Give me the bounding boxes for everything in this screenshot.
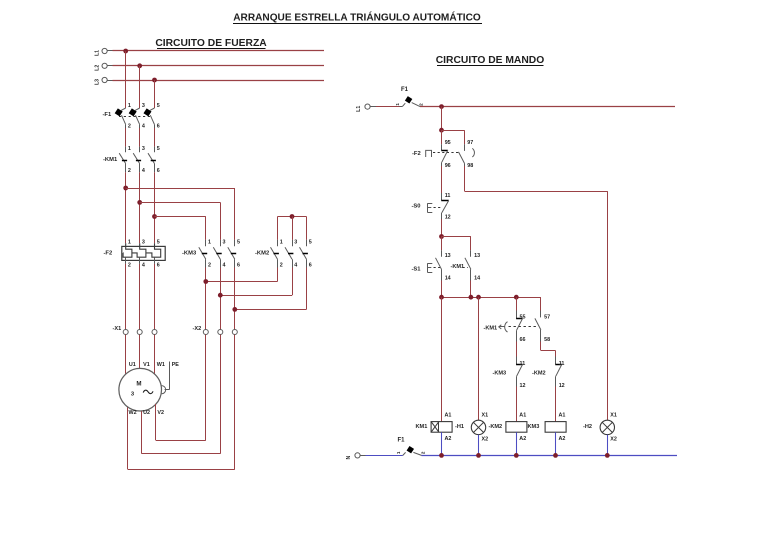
svg-text:2: 2 (128, 168, 131, 174)
thermal contact F2 NC 95-96 (441, 140, 450, 169)
motor label U1 (129, 362, 136, 368)
svg-text:12: 12 (559, 383, 565, 389)
svg-text:X2: X2 (482, 436, 489, 442)
thermal contact F2 NO 97-98 (459, 140, 474, 169)
contactor KM3 pole 2 (213, 239, 225, 268)
wire F2 NC feed (441, 130, 443, 144)
terminal X1-1 (123, 330, 128, 335)
svg-text:F1: F1 (398, 438, 406, 444)
stop button S0 NC 11-12 (441, 193, 450, 221)
svg-text:W2: W2 (129, 410, 137, 416)
motor label U2 (143, 410, 150, 416)
wire rail4 (442, 297, 541, 299)
node cross1 (203, 279, 208, 284)
node neutral KM3 (553, 453, 558, 458)
wire X1-motor V1 (139, 335, 141, 369)
svg-text:-KM3: -KM3 (182, 251, 197, 257)
contact KM1 aux NO 13-14 (465, 250, 480, 281)
svg-text:-KM3: -KM3 (493, 371, 507, 377)
wire branch2 horiz (140, 202, 221, 204)
svg-text:-KM2: -KM2 (489, 424, 503, 430)
svg-text:6: 6 (157, 124, 160, 130)
wire H1 lamp to neutral (478, 435, 480, 456)
svg-text:14: 14 (445, 275, 451, 281)
svg-text:-KM2: -KM2 (532, 371, 546, 377)
svg-text:CIRCUITO DE MANDO: CIRCUITO DE MANDO (436, 55, 545, 66)
thermal contact F2 trip hook (472, 148, 474, 157)
wire KM1-F2 pole1 (125, 172, 127, 243)
wire KM3-X2 pole1 (205, 268, 207, 330)
breaker F1 neutral (396, 446, 425, 455)
wire F2-X1 pole1 (125, 264, 127, 330)
wire H2 drop (607, 191, 609, 420)
wire branch1 drop (234, 188, 236, 240)
wire KM1 coil feed (441, 297, 443, 421)
wire KM2 pole3 cross (235, 309, 307, 311)
motor label V2 (157, 410, 164, 416)
wire KM2 bus drop2 (292, 217, 294, 240)
wire KM2 pole2 cross (220, 295, 292, 297)
svg-text:-KM1: -KM1 (103, 157, 118, 163)
wire KM1aux feed (470, 237, 472, 251)
svg-text:3: 3 (142, 146, 145, 152)
svg-text:M: M (136, 380, 141, 387)
lamp H1 name (489, 424, 503, 430)
node start branch (439, 234, 444, 239)
terminal X2-2 (218, 330, 223, 335)
svg-text:58: 58 (544, 337, 550, 343)
terminal X1-2 (137, 330, 142, 335)
svg-text:95: 95 (445, 140, 451, 146)
svg-text:A1: A1 (445, 413, 452, 419)
contactor KM2 pole 3 (300, 239, 312, 268)
wire branch3 drop (205, 217, 207, 240)
wire KM3-X2 pole2 (220, 268, 222, 330)
contactor KM3 pole 1 (199, 239, 211, 268)
wire KM2 coil feed (516, 387, 518, 422)
wire branch2 drop (220, 202, 222, 240)
svg-text:2: 2 (208, 262, 211, 268)
svg-text:98: 98 (467, 163, 473, 169)
wire F1-KM1 pole2 (139, 128, 141, 147)
contactor KM3 pole 3 (228, 239, 240, 268)
motor M1 (119, 368, 162, 411)
wire F2 NO feed (464, 130, 466, 144)
terminal N (346, 453, 360, 460)
svg-text:-H1: -H1 (455, 424, 464, 430)
svg-text:1: 1 (280, 239, 283, 245)
node neutral H1 (476, 453, 481, 458)
node L3 tap (152, 78, 157, 83)
contact KM3 aux NC 11-12 (516, 357, 525, 389)
svg-text:-F1: -F1 (103, 112, 112, 118)
svg-text:W1: W1 (157, 362, 165, 368)
wire S0-node (441, 219, 443, 237)
thermal relay F2 pole 1 (123, 239, 132, 268)
svg-text:-H2: -H2 (583, 424, 592, 430)
wire S1-rail4 (441, 281, 443, 298)
node F2 branch (439, 128, 444, 133)
svg-text:4: 4 (142, 168, 145, 174)
contactor KM1 pole 1 (119, 146, 131, 174)
svg-text:4: 4 (142, 124, 145, 130)
motor label W1 (157, 362, 165, 368)
wire 66-KM3aux (516, 342, 518, 357)
wire PE (162, 362, 170, 394)
svg-text:12: 12 (445, 214, 451, 220)
svg-text:-X2: -X2 (193, 326, 202, 332)
svg-text:U1: U1 (129, 362, 136, 368)
svg-text:L3: L3 (95, 79, 101, 85)
wire L1 drop (125, 51, 127, 108)
contact KM1 aux label (451, 264, 465, 270)
wire KM2 bus drop1 (277, 217, 279, 240)
svg-text:V2: V2 (157, 410, 164, 416)
breaker F1 pole 1 (115, 103, 131, 129)
wire N-F1 (360, 455, 403, 457)
lamp H1 (471, 413, 488, 443)
wire KM2 pole3 down (306, 268, 308, 310)
wire timed NO feed (540, 297, 542, 310)
svg-text:96: 96 (445, 163, 451, 169)
timed contact KM1 label (484, 325, 498, 331)
node rail4 a (439, 295, 444, 300)
coil KM3 (545, 413, 566, 443)
wire KM3-X2 pole3 (234, 268, 236, 330)
start button S1 actuator (427, 264, 440, 273)
node KM2 bus tap (290, 214, 295, 219)
svg-text:-S0: -S0 (412, 203, 421, 209)
wire KM1-F2 pole3 (154, 172, 156, 243)
wire L2 rail (107, 65, 324, 67)
wire KM3 coil to neutral (555, 432, 557, 455)
contactor KM1 pole 2 (133, 146, 145, 174)
wire KM1-F2 pole2 (139, 172, 141, 243)
wire KM1aux-rail4 (470, 281, 472, 298)
title circuito de mando (436, 55, 545, 66)
wire KM2 pole1 down (277, 268, 279, 282)
svg-text:L1: L1 (95, 50, 101, 56)
node cross3 (232, 307, 237, 312)
wire branch1 horiz (126, 188, 235, 190)
stop button S0 label (412, 203, 421, 209)
wire F2-X1 pole2 (139, 264, 141, 330)
svg-text:-KM1: -KM1 (451, 264, 465, 270)
motor label V1 (143, 362, 150, 368)
wire X1-motor U1 (125, 335, 127, 374)
svg-text:1: 1 (396, 451, 401, 454)
svg-text:14: 14 (474, 275, 480, 281)
lamp H2 name (583, 424, 592, 430)
coil KM1 name (455, 424, 464, 430)
start button S1 NO 13-14 (436, 250, 451, 281)
wire F1-KM1 pole3 (154, 128, 156, 147)
contact KM2 aux NC 11-12 (555, 357, 564, 389)
terminal X2-3 (232, 330, 237, 335)
svg-text:11: 11 (445, 193, 451, 199)
thermal contact F2 actuator (426, 150, 460, 157)
svg-text:66: 66 (520, 337, 526, 343)
contactor KM2 pole 1 (271, 239, 283, 268)
breaker F1 pole 2 (129, 103, 145, 129)
thermal contact F2 label (412, 151, 421, 157)
timed contact KM1 symbol (499, 322, 537, 332)
terminal L3 (95, 77, 108, 85)
svg-text:F1: F1 (401, 87, 409, 93)
breaker F1 neutral label (398, 438, 406, 444)
start button S1 label (412, 266, 422, 272)
wire branch3 horiz (155, 216, 206, 218)
svg-text:KM1: KM1 (416, 424, 428, 430)
svg-text:-X1: -X1 (113, 326, 122, 332)
thermal relay F2 pole 2 (132, 239, 146, 268)
svg-text:11: 11 (559, 361, 565, 367)
svg-text:1: 1 (208, 239, 211, 245)
svg-text:A2: A2 (559, 436, 566, 442)
contactor KM3 label (182, 251, 197, 257)
wire KM2 bus drop3 (306, 217, 308, 240)
breaker F1 label (103, 112, 112, 118)
svg-text:A1: A1 (559, 413, 566, 419)
thermal relay F2 box (122, 246, 165, 260)
wire top tap down (441, 107, 443, 131)
svg-text:-KM1: -KM1 (484, 325, 498, 331)
node L1 tap (123, 49, 128, 54)
svg-text:X1: X1 (482, 413, 489, 419)
node rail4 b (469, 295, 474, 300)
svg-text:6: 6 (237, 262, 240, 268)
svg-text:A2: A2 (445, 436, 452, 442)
wire V2 return (156, 335, 206, 441)
terminal L2 (95, 63, 108, 71)
svg-text:5: 5 (157, 146, 160, 152)
svg-text:N: N (346, 455, 352, 459)
timed contact KM1 NO 57-58 (535, 311, 550, 343)
wire 98 to H2 drop (464, 166, 466, 191)
stop button S0 actuator (427, 204, 440, 213)
wire X1-motor W1 (154, 335, 156, 375)
node rail4 d (514, 295, 519, 300)
contactor KM1 pole 3 (148, 146, 160, 174)
wire KM2 coil to neutral (516, 432, 518, 455)
node L2 tap (137, 63, 142, 68)
node neutral KM2 (514, 453, 519, 458)
svg-text:13: 13 (445, 253, 451, 259)
svg-text:3: 3 (223, 239, 226, 245)
wire L2 drop (139, 66, 141, 108)
wire H1 feed (478, 297, 480, 420)
svg-text:PE: PE (172, 362, 180, 368)
node branch3 (152, 214, 157, 219)
wire KM3 coil feed (555, 387, 557, 422)
svg-text:A2: A2 (519, 436, 526, 442)
svg-text:12: 12 (520, 383, 526, 389)
wire KM1 coil to neutral (441, 432, 443, 455)
coil KM1 (416, 413, 453, 443)
contact KM2 aux label (532, 371, 546, 377)
coil KM2 name (528, 424, 540, 430)
svg-text:1: 1 (128, 239, 131, 245)
svg-text:1: 1 (128, 103, 131, 109)
svg-text:2: 2 (421, 451, 426, 454)
terminal L1 control (356, 104, 370, 112)
terminal L1 (95, 48, 108, 56)
svg-text:L1: L1 (356, 106, 362, 112)
svg-text:L2: L2 (95, 65, 101, 71)
node rail4 c (476, 295, 481, 300)
motor label PE (172, 362, 180, 368)
wire L3 rail (107, 80, 324, 82)
wire S1 feed (441, 237, 443, 251)
svg-text:3: 3 (142, 103, 145, 109)
terminal X1-3 (152, 330, 157, 335)
wire 58 jog (541, 342, 556, 357)
contactor KM2 pole 2 (285, 239, 297, 268)
svg-text:4: 4 (142, 262, 145, 268)
svg-text:55: 55 (520, 314, 526, 320)
terminal X2-1 (203, 330, 208, 335)
wire F2 branch horiz (442, 130, 465, 132)
contact KM3 aux label (493, 371, 507, 377)
wire start branch horiz (442, 236, 471, 238)
svg-text:-KM2: -KM2 (255, 251, 269, 257)
svg-text:6: 6 (309, 262, 312, 268)
svg-text:2: 2 (280, 262, 283, 268)
svg-text:5: 5 (157, 103, 160, 109)
wire H2 lamp to neutral (607, 435, 609, 456)
svg-text:13: 13 (474, 253, 480, 259)
svg-text:57: 57 (544, 314, 550, 320)
svg-text:2: 2 (128, 124, 131, 130)
svg-text:-S1: -S1 (412, 266, 422, 272)
svg-text:-F2: -F2 (104, 251, 113, 257)
wire KM2 star bus (278, 216, 307, 218)
terminal strip X2 label (193, 326, 202, 332)
motor label W2 (129, 410, 137, 416)
wire L1 rail (107, 50, 324, 52)
breaker F1 control (395, 96, 423, 107)
wire KM2 pole2 down (292, 268, 294, 296)
svg-text:1: 1 (395, 103, 400, 106)
thermal relay F2 label (104, 251, 113, 257)
breaker F1 control label (401, 87, 409, 93)
svg-text:X1: X1 (610, 413, 617, 419)
svg-text:4: 4 (223, 262, 226, 268)
svg-text:5: 5 (157, 239, 160, 245)
wire 98 to H2 horiz (465, 191, 608, 193)
svg-text:3: 3 (294, 239, 297, 245)
wire KM2 pole1 cross (206, 281, 278, 283)
lamp H2 (600, 413, 617, 443)
svg-text:A1: A1 (519, 413, 526, 419)
svg-text:U2: U2 (143, 410, 150, 416)
svg-text:5: 5 (237, 239, 240, 245)
title circuito de fuerza (155, 38, 267, 49)
svg-text:ARRANQUE ESTRELLA TRIÁNGULO AU: ARRANQUE ESTRELLA TRIÁNGULO AUTOMÁTICO (233, 10, 481, 23)
svg-text:CIRCUITO DE FUERZA: CIRCUITO DE FUERZA (155, 38, 267, 49)
timed contact KM1 NC 55-66 (516, 311, 525, 343)
svg-text:6: 6 (157, 262, 160, 268)
wire U2 return (142, 335, 221, 454)
wire L1-F1 (370, 106, 399, 108)
thermal relay F2 pole 3 (146, 239, 160, 268)
node control top tap (439, 104, 444, 109)
contact KM1 aux link (463, 267, 468, 269)
svg-text:KM3: KM3 (528, 424, 540, 430)
svg-text:X2: X2 (610, 436, 617, 442)
wire 96-S0 (441, 166, 443, 193)
wire L3 drop (154, 80, 156, 108)
wire F2-X1 pole3 (154, 264, 156, 330)
breaker F1 pole 3 (143, 103, 159, 129)
svg-text:2: 2 (418, 103, 423, 106)
title main (233, 10, 482, 23)
node neutral H2 (605, 453, 610, 458)
svg-text:5: 5 (309, 239, 312, 245)
node cross2 (218, 293, 223, 298)
coil KM2 (506, 413, 527, 443)
svg-text:V1: V1 (143, 362, 150, 368)
node branch1 (123, 186, 128, 191)
svg-text:4: 4 (294, 262, 297, 268)
svg-text:3: 3 (142, 239, 145, 245)
terminal strip X1 label (113, 326, 122, 332)
node neutral KM1 (439, 453, 444, 458)
breaker F1 linkage (119, 116, 150, 118)
wire F1-KM1 pole1 (125, 128, 127, 147)
contactor KM2 label (255, 251, 269, 257)
svg-text:1: 1 (128, 146, 131, 152)
svg-text:6: 6 (157, 168, 160, 174)
svg-text:-F2: -F2 (412, 151, 421, 157)
node branch2 (137, 200, 142, 205)
svg-text:97: 97 (467, 140, 473, 146)
wire timed NC feed (516, 297, 518, 310)
svg-text:11: 11 (520, 361, 526, 367)
wire F1-end top rail (420, 106, 675, 108)
svg-text:2: 2 (128, 262, 131, 268)
wire neutral rail (422, 455, 678, 457)
contactor KM1 label (103, 157, 118, 163)
wire W2 return (128, 335, 235, 470)
